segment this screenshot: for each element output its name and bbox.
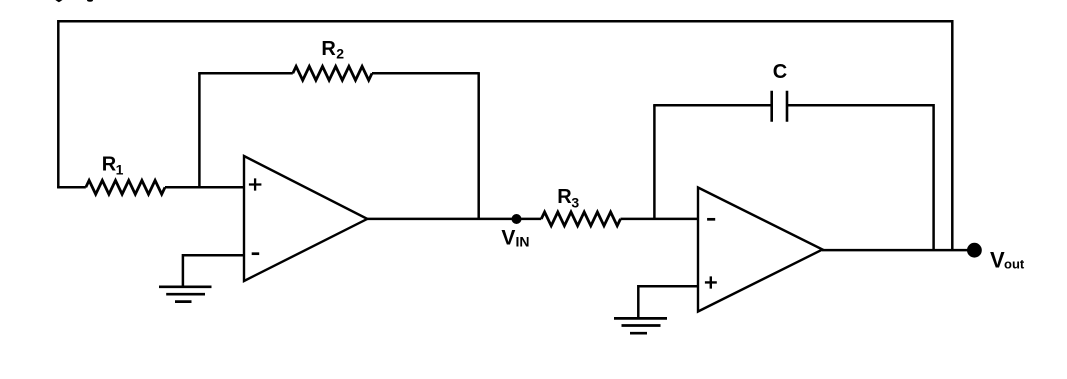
cropped text remnant 1 bbox=[55, 0, 62, 2]
wire U1 inverting input to ground bbox=[183, 255, 244, 286]
wire capacitor to output node bbox=[932, 104, 935, 250]
wire capacitor left lead bbox=[653, 104, 772, 107]
op-amp U2 plus input marker bbox=[705, 276, 717, 288]
svg-text:R: R bbox=[557, 186, 572, 208]
resistor R1 bbox=[86, 180, 165, 194]
svg-text:3: 3 bbox=[571, 195, 579, 211]
wire R3 to op-amp U2 inverting input bbox=[621, 218, 699, 221]
op-amp U1 plus input marker bbox=[249, 178, 262, 190]
op-amp U1 minus input marker bbox=[252, 252, 260, 255]
node junction R1/R2 bbox=[198, 73, 201, 187]
node Vout terminal bbox=[967, 243, 982, 258]
node VIN bbox=[512, 214, 522, 224]
capacitor C bbox=[772, 91, 787, 122]
wire R1 to op-amp U1 non-inverting input bbox=[165, 186, 244, 189]
wire U2 non-inverting input to ground bbox=[638, 286, 698, 318]
svg-text:2: 2 bbox=[336, 46, 344, 62]
node junction at U2 inverting input / capacitor branch bbox=[653, 105, 656, 219]
wire input to R1 bbox=[57, 186, 86, 189]
wire R2 to U1 output node bbox=[477, 72, 480, 219]
resistor R2 bbox=[293, 66, 372, 80]
svg-text:1: 1 bbox=[116, 162, 124, 178]
op-amp U2 minus input marker bbox=[707, 218, 715, 221]
svg-text:V: V bbox=[501, 226, 515, 249]
svg-text:out: out bbox=[1004, 256, 1025, 271]
wire R2 left lead bbox=[198, 72, 293, 75]
wire outer feedback loop (left vertical, top, right vertical) bbox=[58, 21, 952, 250]
resistor R3 bbox=[541, 212, 620, 226]
cropped text remnant 2 bbox=[87, 0, 93, 2]
ground G1 bbox=[159, 287, 212, 302]
svg-text:C: C bbox=[773, 61, 787, 83]
wire U2 output to Vout bbox=[822, 249, 970, 252]
svg-text:R: R bbox=[321, 38, 336, 60]
op-amp U2 bbox=[698, 188, 823, 312]
wire U1 output to R3 bbox=[367, 218, 541, 221]
ground G2 bbox=[614, 318, 667, 333]
svg-text:V: V bbox=[990, 247, 1005, 272]
wire R2 right lead bbox=[372, 72, 479, 75]
op-amp U1 bbox=[244, 156, 367, 281]
svg-text:R: R bbox=[102, 154, 117, 176]
svg-text:IN: IN bbox=[516, 234, 530, 250]
wire capacitor right lead bbox=[787, 104, 934, 107]
